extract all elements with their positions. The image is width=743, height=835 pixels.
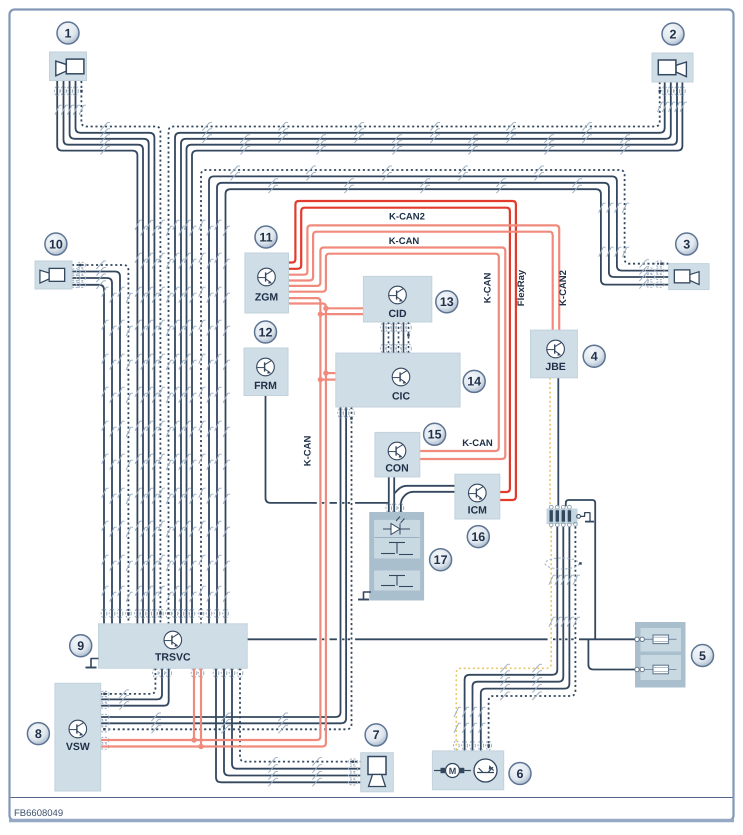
wire K-CAN tap CID 2 bbox=[320, 313, 363, 315]
wire camera2-4 to TRSVC bbox=[187, 82, 678, 624]
wire camera3-4 to TRSVC bbox=[226, 189, 669, 624]
svg-text:16: 16 bbox=[471, 530, 485, 544]
svg-text:K-CAN2: K-CAN2 bbox=[558, 270, 569, 306]
connector pin 3 bbox=[562, 510, 565, 522]
connector pin 2 bbox=[556, 510, 559, 522]
connector rings CIC top bbox=[381, 344, 387, 353]
fuse box 5 bbox=[636, 623, 686, 688]
wire K-CAN A ZGM-CON bbox=[289, 248, 506, 460]
camera box 2 bbox=[652, 53, 693, 82]
connector rings motor-unit top bbox=[454, 741, 460, 750]
wire K-CAN TRSVC drop A bbox=[193, 668, 195, 740]
wire camera1-3 to TRSVC bbox=[70, 81, 149, 624]
label circle 4 bbox=[583, 345, 605, 367]
wire K-CAN2 A ZGM-JBE bbox=[289, 225, 560, 330]
camera box 1 bbox=[50, 52, 87, 81]
shield dot camera3 bbox=[660, 262, 663, 265]
svg-text:M: M bbox=[449, 766, 457, 776]
label circle 6 bbox=[509, 763, 531, 785]
wire CID-CIC link 4 bbox=[398, 322, 400, 353]
wire JBE to connector (ter15) bbox=[549, 378, 551, 507]
hatch marks camera1 leads bbox=[55, 105, 60, 115]
shield ellipse JBE bundle bbox=[545, 558, 579, 569]
hatch marks camera2 leads bbox=[657, 102, 662, 112]
label circle 17 bbox=[430, 549, 452, 571]
connector rings camera1 bbox=[54, 86, 60, 95]
antenna icon unit 17 upper bbox=[381, 543, 413, 555]
svg-text:4: 4 bbox=[591, 350, 598, 364]
svg-text:8: 8 bbox=[35, 727, 42, 741]
title block separator line bbox=[11, 797, 733, 799]
connector rings camera10 bbox=[71, 269, 80, 275]
wire CID-CIC link 5 bbox=[403, 322, 405, 353]
svg-text:2: 2 bbox=[670, 27, 677, 41]
svg-text:FlexRay: FlexRay bbox=[516, 269, 527, 306]
module CIC bbox=[336, 353, 460, 407]
svg-text:K-CAN: K-CAN bbox=[462, 438, 493, 449]
connector pin 1 bbox=[550, 510, 553, 522]
wire connector to motor-unit 4 bbox=[481, 527, 570, 751]
wire camera2-3 to TRSVC bbox=[181, 82, 671, 624]
wire ICM to CON bbox=[394, 486, 455, 494]
shield dot CID link bbox=[407, 334, 410, 337]
label circle 7 bbox=[365, 724, 387, 746]
wire connector to motor-unit 1 bbox=[456, 527, 551, 751]
camera box 3 bbox=[669, 264, 709, 290]
wire CID-CIC link 3 bbox=[393, 322, 395, 353]
fuse 1 bbox=[643, 638, 677, 640]
hatch marks monitor feed bbox=[268, 758, 275, 766]
wire connector to motor-unit 5 bbox=[489, 527, 576, 751]
shield dots TRSVC top bbox=[127, 612, 130, 615]
wire CIC to VSW 2 bbox=[101, 407, 346, 723]
wire camera1-2 to TRSVC bbox=[76, 81, 155, 624]
module ZGM bbox=[245, 253, 289, 313]
wire K-CAN B ZGM-CON bbox=[289, 254, 499, 451]
wire CON to antenna unit 2 bbox=[393, 477, 395, 513]
module FRM bbox=[244, 348, 288, 396]
shield dot camera1 bbox=[80, 90, 83, 93]
svg-text:FB6608049: FB6608049 bbox=[14, 808, 63, 819]
label circle 2 bbox=[662, 23, 684, 45]
wire camera1-5 to TRSVC bbox=[57, 81, 137, 624]
shield dots VSW inputs bbox=[103, 693, 106, 696]
module VSW bbox=[55, 683, 101, 791]
wire TRSVC to monitor 2 bbox=[232, 668, 361, 769]
antenna icon unit 17 lower bbox=[381, 576, 413, 587]
bracket at connector bbox=[577, 515, 581, 519]
shield dot motor-unit top bbox=[487, 744, 490, 747]
connector rings TRSVC top bbox=[135, 609, 141, 618]
hatch marks motor-unit feed bbox=[500, 664, 507, 672]
svg-text:VSW: VSW bbox=[66, 741, 90, 753]
connector rings camera3 bbox=[645, 268, 654, 274]
label circle 16 bbox=[467, 526, 489, 548]
svg-text:K-CAN: K-CAN bbox=[303, 436, 314, 467]
junction connector block bbox=[547, 509, 578, 524]
wire FRM to antenna unit bbox=[266, 396, 313, 503]
module CID bbox=[363, 276, 431, 322]
wire CID-CIC link 6 bbox=[408, 322, 410, 353]
wire CON to antenna unit 1 bbox=[388, 477, 390, 503]
wire camera1-4 to TRSVC bbox=[64, 81, 144, 624]
wire camera2-1 to TRSVC bbox=[169, 82, 660, 624]
svg-text:K-CAN2: K-CAN2 bbox=[389, 212, 425, 223]
module JBE bbox=[531, 330, 578, 378]
shield dot CIC bottom bbox=[350, 417, 353, 420]
svg-text:1: 1 bbox=[65, 26, 72, 40]
wire CID-CIC link 2 bbox=[388, 322, 390, 353]
wire TRSVC to monitor 4 bbox=[216, 668, 361, 782]
monitor icon bbox=[368, 757, 386, 775]
wire CIC to VSW 3 bbox=[101, 407, 352, 729]
wire camera10-3 to TRSVC bbox=[72, 278, 112, 624]
svg-text:6: 6 bbox=[517, 767, 524, 781]
connector rings antenna unit top bbox=[386, 503, 392, 512]
wire K-CAN tap CID 1 bbox=[326, 307, 364, 309]
label circle 3 bbox=[676, 233, 698, 255]
svg-text:CON: CON bbox=[385, 463, 408, 475]
wire TRSVC to VSW 2 bbox=[101, 668, 162, 699]
module ICM bbox=[455, 474, 500, 519]
motor unit box 6 bbox=[432, 751, 503, 790]
wire camera2-2 to TRSVC bbox=[175, 82, 665, 624]
wire camera1-1 to TRSVC bbox=[81, 81, 160, 624]
hatch marks VSW feed upper bbox=[119, 690, 126, 698]
connector stub for shield wire bbox=[574, 522, 578, 526]
shield dot camera2 bbox=[659, 90, 662, 93]
wire TRSVC to monitor 3 bbox=[224, 668, 361, 775]
wire camera10-4 to TRSVC bbox=[72, 285, 104, 624]
svg-text:K-CAN: K-CAN bbox=[389, 236, 420, 247]
hatch marks trunk bbox=[135, 220, 140, 230]
motor M symbol bbox=[434, 770, 444, 772]
svg-text:11: 11 bbox=[259, 230, 272, 244]
svg-text:10: 10 bbox=[49, 237, 63, 251]
svg-text:FRM: FRM bbox=[254, 380, 277, 392]
wire camera3-1 to TRSVC bbox=[201, 170, 669, 624]
svg-text:3: 3 bbox=[683, 237, 690, 251]
transistor symbol unit 6 bbox=[474, 759, 497, 782]
connector rings monitor input bbox=[348, 759, 357, 765]
wire camera2-5 to TRSVC bbox=[192, 82, 682, 624]
wire K-CAN trunk A ZGM-VSW bbox=[101, 298, 321, 740]
wire K-CAN tap CIC 1 bbox=[326, 372, 336, 374]
wire K-CAN tap CIC 2 bbox=[320, 379, 335, 381]
camera box 10 bbox=[35, 261, 72, 289]
label circle 5 bbox=[692, 645, 714, 667]
monitor box 7 bbox=[361, 753, 394, 792]
wire K-CAN trunk B ZGM-VSW bbox=[101, 304, 326, 747]
wire TRSVC to monitor 1 bbox=[240, 668, 361, 761]
hatch marks JBE bundle bbox=[549, 575, 554, 585]
label circle 8 bbox=[27, 723, 49, 745]
wire JBE to connector (signal) bbox=[557, 378, 559, 507]
svg-text:ZGM: ZGM bbox=[255, 292, 279, 304]
svg-text:17: 17 bbox=[434, 553, 448, 567]
svg-text:9: 9 bbox=[77, 639, 84, 653]
wire ICM to antenna unit bbox=[401, 492, 455, 513]
hatch marks camera3 riser bbox=[599, 203, 604, 213]
label circle 12 bbox=[255, 321, 277, 343]
wire junction-box connector to fuse line bbox=[566, 500, 595, 639]
svg-text:5: 5 bbox=[699, 649, 706, 663]
connector pin 4 bbox=[568, 510, 571, 522]
wire camera3-3 to TRSVC bbox=[217, 183, 669, 624]
label circle 10 bbox=[45, 233, 67, 255]
hatch marks band1 left bbox=[100, 123, 107, 131]
label circle 1 bbox=[57, 22, 79, 44]
ground bracket unit 17 bbox=[364, 592, 372, 600]
antenna amplifier unit 17 bbox=[370, 513, 424, 601]
hatch marks CIC-VSW run bbox=[151, 713, 158, 721]
wire camera10-2 to TRSVC bbox=[72, 272, 120, 624]
shield dot camera10 bbox=[79, 264, 82, 267]
svg-text:14: 14 bbox=[467, 375, 481, 389]
svg-text:CIC: CIC bbox=[392, 391, 411, 403]
wire K-CAN2 B ZGM-JBE bbox=[289, 232, 553, 330]
wire FlexRay B ZGM-ICM bbox=[289, 208, 510, 492]
connector rings CIC bottom bbox=[338, 408, 344, 417]
svg-text:CID: CID bbox=[388, 308, 407, 320]
label circle 9 bbox=[70, 635, 92, 657]
ground bracket TRSVC bbox=[91, 659, 99, 668]
shield dot monitor input bbox=[352, 760, 355, 763]
fuse 2 bbox=[643, 669, 677, 671]
wire K-CAN TRSVC drop B bbox=[200, 668, 202, 746]
svg-text:15: 15 bbox=[428, 428, 442, 442]
label circle 15 bbox=[424, 423, 446, 445]
wire CIC to VSW 1 bbox=[101, 407, 341, 717]
label circle 14 bbox=[463, 370, 485, 392]
hatch marks band1 right bbox=[202, 123, 209, 131]
wire TRSVC to fuse 1 bbox=[247, 638, 317, 640]
connector rings VSW inputs bbox=[100, 691, 109, 697]
wire CID-CIC link 1 bbox=[383, 322, 385, 353]
svg-text:K-CAN: K-CAN bbox=[483, 273, 494, 304]
svg-text:ICM: ICM bbox=[468, 505, 488, 517]
wire FlexRay A ZGM-ICM bbox=[289, 201, 516, 500]
svg-text:7: 7 bbox=[373, 728, 380, 742]
connector rings camera2 bbox=[662, 86, 668, 95]
svg-text:12: 12 bbox=[259, 325, 273, 339]
wire camera10-1 to TRSVC bbox=[72, 265, 128, 624]
wire branch to fuse 2 bbox=[588, 639, 635, 669]
wire TRSVC to VSW 3 bbox=[101, 668, 169, 706]
label circle 11 bbox=[255, 226, 277, 248]
wire connector to motor-unit 3 bbox=[473, 527, 564, 751]
hatch marks camera3 leads bbox=[639, 260, 646, 268]
hatch marks camera10 leads bbox=[96, 261, 103, 269]
IR diode icon unit 17 bbox=[375, 517, 420, 538]
svg-text:JBE: JBE bbox=[545, 361, 565, 373]
wire TRSVC to VSW 1 bbox=[101, 668, 156, 694]
label circle 13 bbox=[436, 291, 458, 313]
svg-text:13: 13 bbox=[440, 295, 454, 309]
connector rings TRSVC bottom bbox=[153, 668, 159, 677]
connector rings CID bottom bbox=[381, 323, 387, 332]
svg-text:TRSVC: TRSVC bbox=[155, 652, 191, 664]
wire connector to motor-unit 2 bbox=[465, 527, 558, 751]
module TRSVC bbox=[99, 624, 248, 668]
wire camera3-2 to TRSVC bbox=[209, 176, 669, 623]
hatch marks band2 bbox=[230, 166, 237, 174]
module CON bbox=[375, 432, 420, 477]
